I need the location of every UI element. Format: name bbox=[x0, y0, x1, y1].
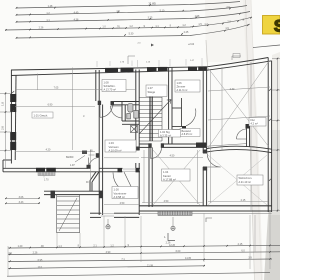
window top wall (zimmer) bbox=[188, 67, 197, 71]
svg-text:1.03: 1.03 bbox=[109, 141, 115, 145]
wc fixtures bbox=[127, 104, 139, 119]
svg-text:1.48: 1.48 bbox=[48, 5, 53, 8]
label 1.02 stiege2 bbox=[159, 130, 181, 138]
door wc bbox=[111, 106, 123, 118]
svg-text:4.50: 4.50 bbox=[170, 155, 175, 158]
svg-text:Kantor: Kantor bbox=[163, 174, 171, 178]
flur west wall bbox=[247, 128, 250, 147]
wall E right vertical bbox=[203, 67, 206, 206]
porch wall bbox=[44, 191, 99, 194]
svg-text:2.26: 2.26 bbox=[39, 27, 44, 30]
svg-text:7.05: 7.05 bbox=[54, 87, 59, 90]
bottom ticks bbox=[9, 245, 271, 270]
door zimmer closet bbox=[186, 109, 196, 126]
label 1.10 wohnzimmer bbox=[237, 175, 263, 185]
svg-text:A 3.35 m²: A 3.35 m² bbox=[160, 133, 171, 137]
svg-text:1.70: 1.70 bbox=[44, 180, 49, 182]
svg-text:6.00: 6.00 bbox=[176, 250, 181, 253]
wall tick marks bbox=[12, 89, 271, 181]
svg-text:1.01 Gesch.: 1.01 Gesch. bbox=[34, 113, 49, 117]
svg-text:Vorraum: Vorraum bbox=[109, 145, 120, 149]
stair up arrow diagonal bbox=[140, 100, 172, 134]
svg-text:+2.04: +2.04 bbox=[188, 43, 195, 46]
svg-text:2.15: 2.15 bbox=[238, 243, 243, 246]
bottom wall right section bbox=[139, 206, 272, 214]
label 1.04 kantor bbox=[162, 169, 191, 181]
svg-text:10.1: 10.1 bbox=[38, 266, 43, 269]
label zimmer lower box bbox=[180, 129, 200, 137]
door right room bbox=[207, 154, 221, 168]
chamfer corner entry bbox=[90, 172, 99, 191]
svg-text:1.06: 1.06 bbox=[177, 81, 183, 85]
yellow label bbox=[263, 16, 281, 35]
small symbol near 162,52 bbox=[151, 44, 154, 51]
svg-text:2.6: 2.6 bbox=[1, 126, 5, 130]
svg-text:11.85: 11.85 bbox=[148, 2, 156, 6]
svg-text:5.10: 5.10 bbox=[160, 9, 165, 12]
svg-text:4.49: 4.49 bbox=[74, 11, 79, 14]
diagonals kantor bbox=[153, 150, 200, 205]
window left wall 2 bbox=[10, 132, 16, 140]
door jamb piers bbox=[98, 101, 207, 171]
interior labels bbox=[46, 87, 246, 205]
threshold entry door bbox=[101, 214, 114, 216]
svg-text:3.06: 3.06 bbox=[19, 196, 24, 199]
wall B corridor-left bbox=[96, 70, 103, 215]
label 1.09 flur bbox=[249, 118, 266, 127]
svg-text:1.8: 1.8 bbox=[1, 102, 5, 106]
svg-text:Flur: Flur bbox=[251, 118, 256, 122]
faint page edge line above plan bbox=[206, 40, 208, 66]
svg-text:6.90: 6.90 bbox=[48, 104, 53, 107]
zimmer closet partitions bbox=[172, 98, 186, 130]
door kantor bbox=[151, 148, 162, 159]
svg-text:4.38: 4.38 bbox=[74, 18, 79, 21]
svg-text:4.2 m²: 4.2 m² bbox=[251, 122, 258, 126]
xarea bottom extra line bbox=[207, 144, 247, 147]
circled marks bottom bbox=[107, 219, 109, 225]
label 1.08 schlafzimmer bbox=[102, 80, 126, 92]
corner mark right bbox=[206, 218, 212, 222]
svg-text:1.: 1. bbox=[164, 235, 166, 239]
svg-text:4.20: 4.20 bbox=[46, 149, 51, 152]
kantor left wall bbox=[149, 147, 152, 207]
right room top wall bbox=[207, 146, 272, 152]
svg-text:2.15: 2.15 bbox=[241, 199, 246, 202]
svg-text:2.26: 2.26 bbox=[166, 242, 171, 245]
svg-text:4.30: 4.30 bbox=[230, 88, 235, 91]
svg-text:4.90: 4.90 bbox=[106, 251, 111, 254]
svg-text:A 21.10 m²: A 21.10 m² bbox=[239, 180, 252, 184]
svg-text:A 9.58 m²: A 9.58 m² bbox=[114, 195, 126, 199]
bottom vertical extension lines bbox=[8, 212, 270, 276]
door to left room bbox=[89, 158, 100, 169]
svg-text:3.43: 3.43 bbox=[19, 201, 24, 204]
svg-text:6.95: 6.95 bbox=[38, 259, 43, 262]
svg-text:Schlafzim.: Schlafzim. bbox=[104, 84, 116, 88]
svg-text:Stiege: Stiege bbox=[148, 90, 156, 94]
label 1.06 zimmer bbox=[175, 80, 200, 92]
bottom wall left room bbox=[3, 168, 99, 172]
entry bottom wall bbox=[90, 213, 139, 217]
corridor bottom wall (entry top wall) bbox=[99, 168, 140, 172]
window left wall 1 bbox=[10, 66, 207, 172]
svg-text:4.50: 4.50 bbox=[120, 202, 125, 205]
label 1.03 vorraum bbox=[105, 140, 136, 152]
extension verticals above top wall bbox=[97, 58, 202, 67]
svg-text:A 8.25 m²: A 8.25 m² bbox=[182, 133, 193, 136]
svg-text:1.98: 1.98 bbox=[195, 15, 200, 18]
svg-text:3.25: 3.25 bbox=[148, 17, 153, 20]
svg-text:80/200: 80/200 bbox=[66, 156, 74, 159]
wc walls bbox=[122, 102, 139, 125]
window top wall (stiege) bbox=[147, 67, 157, 71]
dim labels top bbox=[39, 2, 245, 36]
subtle grey tint left of fold top bbox=[205, 0, 249, 62]
boiler box with X bbox=[131, 126, 138, 133]
door entry big arc bbox=[113, 172, 135, 194]
svg-text:Zimmer: Zimmer bbox=[177, 84, 186, 88]
svg-text:A 13.70 m²: A 13.70 m² bbox=[104, 88, 117, 92]
svg-text:1.07: 1.07 bbox=[148, 86, 154, 90]
diagonals X big top-right bbox=[208, 61, 269, 148]
svg-text:21.98: 21.98 bbox=[147, 264, 154, 267]
kantor top wall bbox=[139, 144, 207, 147]
dim tick marks top bbox=[5, 4, 252, 38]
door-zone annotation cluster left room bbox=[66, 151, 100, 169]
leader right of fold bbox=[232, 56, 241, 60]
leader L-shape mid top bbox=[128, 56, 135, 64]
label 1.00 vorzimmer bbox=[112, 187, 138, 199]
svg-text:tr: tr bbox=[83, 114, 85, 118]
svg-text:Wohnzimm.: Wohnzimm. bbox=[239, 176, 253, 180]
top wall bbox=[11, 58, 272, 76]
bottom labels bbox=[8, 242, 252, 269]
svg-text:1.08: 1.08 bbox=[104, 80, 110, 84]
svg-text:1.04: 1.04 bbox=[163, 170, 169, 174]
wall pier dark block bbox=[196, 143, 206, 148]
wall C mid vertical bbox=[136, 70, 139, 216]
stair middle stringer dark bbox=[150, 96, 152, 142]
right page grey margins bbox=[272, 52, 280, 130]
svg-text:A 17.88 m²: A 17.88 m² bbox=[163, 177, 176, 181]
svg-text:A 11.9 m²: A 11.9 m² bbox=[177, 88, 188, 92]
door flur bbox=[237, 129, 247, 139]
svg-text:1.97: 1.97 bbox=[70, 164, 75, 167]
svg-text:14.05: 14.05 bbox=[185, 257, 192, 260]
svg-text:Vorzimmer: Vorzimmer bbox=[114, 191, 127, 195]
svg-text:1.20: 1.20 bbox=[18, 245, 23, 248]
svg-text:5.30: 5.30 bbox=[129, 32, 134, 35]
level mark L bbox=[168, 233, 175, 241]
stair lower bbox=[57, 194, 80, 233]
wall D stair-right vertical bbox=[169, 68, 172, 144]
schlafzimmer bottom wall bbox=[112, 102, 139, 105]
dim line T1 bbox=[5, 2, 280, 48]
window bottom-left wall bbox=[36, 168, 45, 172]
window top wall (schlafzimmer) bbox=[105, 68, 118, 72]
svg-text:2.26: 2.26 bbox=[33, 252, 38, 255]
diagonals right room bbox=[208, 155, 267, 205]
svg-text:A 10.09 m²: A 10.09 m² bbox=[109, 148, 122, 152]
hatched sill below kantor wall bbox=[158, 211, 192, 215]
label 1.01 left room bbox=[32, 112, 85, 118]
right outer wall bbox=[268, 58, 271, 213]
label 1.07 stiege bbox=[146, 85, 167, 97]
left wall bbox=[3, 70, 16, 172]
svg-text:2.25: 2.25 bbox=[184, 31, 189, 34]
short dims below left wall bbox=[5, 199, 40, 204]
svg-text:1.00: 1.00 bbox=[114, 188, 120, 192]
svg-text:S: S bbox=[274, 17, 280, 36]
hatched sill below left window bbox=[38, 172, 55, 175]
stair upper bbox=[140, 97, 163, 141]
fold shading band bbox=[243, 0, 263, 280]
door schlafzimmer bbox=[100, 105, 113, 118]
svg-text:4.50: 4.50 bbox=[164, 200, 169, 203]
